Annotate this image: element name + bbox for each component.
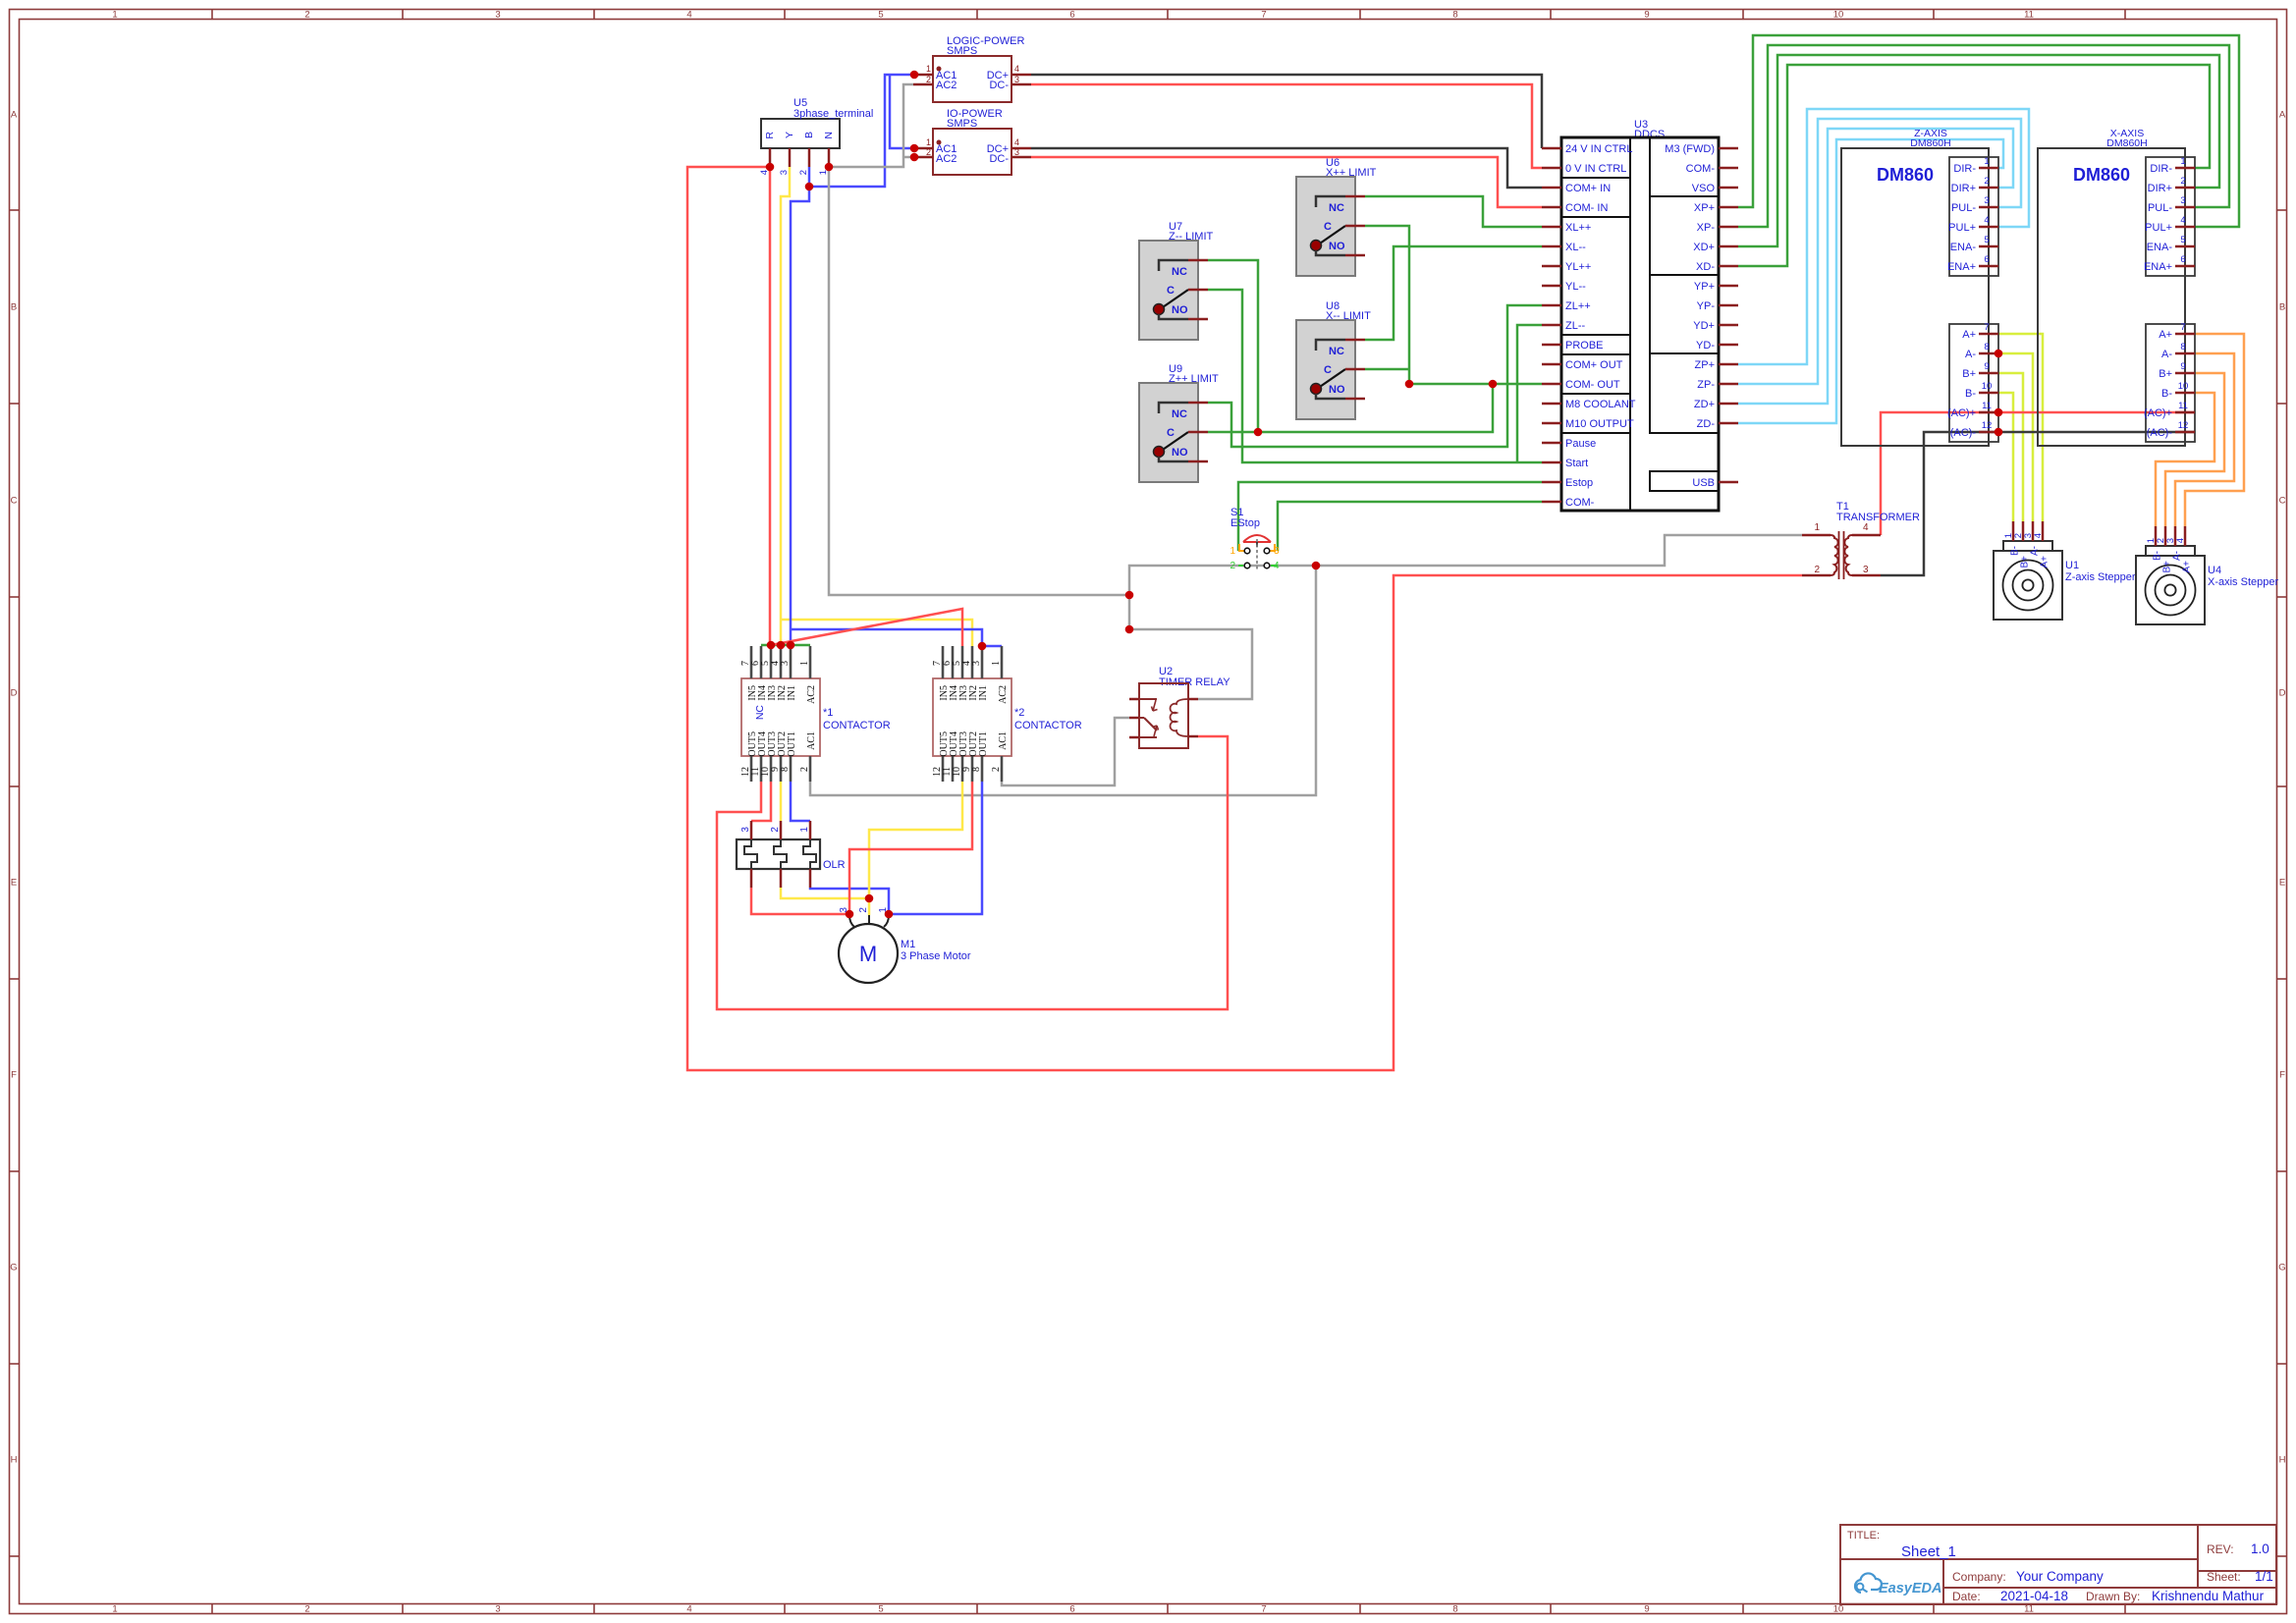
wire Z driver B+ to U1 stepper pin 2 (yellow-green) — [1998, 373, 2023, 521]
wire contactor 1 green bridge IN4 to AC2 — [761, 644, 810, 647]
svg-text:1: 1 — [112, 10, 117, 21]
title block — [1840, 1525, 2276, 1604]
wire Z driver B- to U1 stepper pin 1 (yellow-green) — [1998, 393, 2013, 521]
svg-text:8: 8 — [1452, 10, 1457, 21]
svg-text:2: 2 — [799, 767, 810, 772]
svg-text:8: 8 — [780, 767, 791, 772]
wire phase Y branch to contactor 2 IN2 (yellow) — [781, 620, 972, 646]
wire phase B branch to contactor 2 IN1 (blue) — [791, 629, 982, 646]
svg-text:E: E — [2279, 878, 2285, 889]
svg-text:2: 2 — [304, 1604, 309, 1615]
svg-text:2: 2 — [926, 75, 931, 84]
svg-text:3: 3 — [2180, 195, 2185, 206]
svg-text:(AC)+: (AC)+ — [2144, 407, 2172, 419]
svg-text:3: 3 — [740, 827, 751, 833]
wire U8 NC to DDCS XL-- (green) — [1365, 246, 1542, 340]
svg-text:Date:: Date: — [1952, 1590, 1981, 1603]
wire transformer pin 3 to driver (AC)- pins (black) — [1881, 432, 2195, 575]
wire COM- OUT horizontal (green) — [1409, 383, 1542, 386]
svg-text:7: 7 — [1984, 322, 1989, 333]
svg-text:ZD+: ZD+ — [1694, 399, 1715, 410]
svg-text:ZD-: ZD- — [1697, 418, 1716, 430]
wire DDCS ZD- to Z-axis driver DIR- (light blue loop) — [1738, 139, 2003, 423]
svg-text:1: 1 — [1984, 156, 1989, 167]
timer relay U2 — [1129, 666, 1230, 748]
svg-text:B: B — [803, 132, 815, 138]
wire Z driver A- to U1 stepper pin 3 (yellow-green) — [1998, 353, 2033, 521]
frame row letters left — [10, 110, 18, 1466]
svg-text:PUL-: PUL- — [2148, 202, 2172, 214]
svg-text:C: C — [11, 496, 18, 507]
svg-text:2: 2 — [1984, 176, 1989, 187]
svg-text:COM-: COM- — [1686, 163, 1716, 175]
svg-text:B: B — [11, 302, 17, 313]
svg-text:E: E — [11, 878, 17, 889]
svg-text:3: 3 — [780, 661, 791, 666]
svg-text:8: 8 — [2180, 342, 2185, 352]
svg-text:Company:: Company: — [1952, 1570, 2006, 1584]
svg-text:24 V IN CTRL: 24 V IN CTRL — [1565, 143, 1632, 155]
svg-text:3: 3 — [1014, 75, 1019, 84]
wire 0V: LOGIC SMPS DC- to DDCS 0 V IN CTRL (red) — [1031, 84, 1542, 168]
svg-text:G: G — [10, 1263, 17, 1273]
svg-text:ZP+: ZP+ — [1695, 359, 1715, 371]
svg-text:DIR+: DIR+ — [2148, 183, 2172, 194]
svg-text:7: 7 — [1261, 10, 1266, 21]
svg-text:IN1: IN1 — [787, 685, 797, 701]
svg-text:1/1: 1/1 — [2255, 1569, 2273, 1584]
svg-text:11: 11 — [2024, 1604, 2034, 1615]
svg-text:9: 9 — [2180, 361, 2185, 372]
wire X driver A- to U4 stepper pin 3 (orange) — [2175, 353, 2234, 526]
svg-text:1: 1 — [2180, 156, 2185, 167]
svg-text:2: 2 — [304, 10, 309, 21]
wire U7 C to ZL-- riser and Start (green) — [1208, 290, 1542, 462]
svg-text:M1: M1 — [901, 939, 915, 950]
frame column ticks bottom — [212, 1604, 2125, 1614]
svg-text:ENA-: ENA- — [1950, 242, 1977, 253]
svg-text:B-: B- — [2153, 551, 2163, 561]
svg-text:C: C — [1324, 364, 1332, 376]
svg-text:ENA+: ENA+ — [2144, 261, 2172, 273]
svg-text:CONTACTOR: CONTACTOR — [1014, 720, 1082, 731]
svg-text:B+: B+ — [2162, 561, 2173, 573]
svg-text:DIR-: DIR- — [2150, 163, 2172, 175]
svg-text:9: 9 — [1644, 10, 1649, 21]
svg-text:ZL--: ZL-- — [1565, 320, 1586, 332]
limit switch U7 Z-- LIMIT — [1139, 221, 1213, 340]
svg-text:ZL++: ZL++ — [1565, 300, 1591, 312]
frame row ticks right — [2277, 210, 2287, 1556]
motor M1 3 Phase Motor — [839, 907, 971, 983]
driver X motor pins A/B/(AC) — [2144, 322, 2195, 439]
svg-text:9: 9 — [1644, 1604, 1649, 1615]
svg-text:B-: B- — [2161, 388, 2172, 400]
svg-text:4: 4 — [1984, 215, 1989, 226]
svg-text:AC2: AC2 — [936, 153, 957, 165]
svg-text:XP+: XP+ — [1694, 202, 1715, 214]
svg-text:ZP-: ZP- — [1697, 379, 1715, 391]
svg-text:U1: U1 — [2065, 560, 2079, 571]
svg-text:M10 OUTPUT: M10 OUTPUT — [1565, 418, 1634, 430]
wire contactor 2 OUT1 to motor terminal 1 (blue) — [889, 782, 982, 914]
wire neutral N down and right to S1 riser (gray) — [829, 167, 1129, 595]
svg-text:A-: A- — [2172, 551, 2183, 561]
svg-text:NC: NC — [1329, 202, 1344, 214]
svg-text:AC2: AC2 — [998, 685, 1009, 704]
svg-text:D: D — [11, 688, 18, 699]
svg-text:YL--: YL-- — [1565, 281, 1586, 293]
svg-text:AC1: AC1 — [998, 731, 1009, 750]
svg-text:B+: B+ — [2159, 368, 2172, 380]
stepper driver Z-AXIS DM860H — [1841, 128, 1998, 446]
svg-text:Start: Start — [1565, 458, 1588, 469]
overload relay OLR — [737, 821, 846, 888]
svg-text:H: H — [11, 1455, 18, 1466]
stepper driver X-AXIS DM860H — [2038, 128, 2195, 446]
wire DDCS ZP+ to Z-axis driver PUL+ (light blue loop) — [1738, 109, 2029, 364]
svg-text:Krishnendu Mathur: Krishnendu Mathur — [2152, 1589, 2265, 1603]
svg-text:2: 2 — [1814, 565, 1820, 575]
stepper motor U4 X-axis Stepper — [2136, 526, 2278, 624]
svg-text:H: H — [2279, 1455, 2286, 1466]
controller U3 DDCS left pins — [1542, 143, 1636, 509]
wire contactor 1 OUT3 to OLR pin 3 (red) — [751, 782, 771, 821]
svg-text:(AC)+: (AC)+ — [1947, 407, 1976, 419]
svg-text:DM860: DM860 — [1877, 165, 1934, 185]
svg-text:4: 4 — [2175, 538, 2186, 543]
svg-text:TITLE:: TITLE: — [1847, 1530, 1880, 1542]
svg-text:EStop: EStop — [1230, 517, 1260, 529]
terminal U5 pin stubs and numbers — [759, 148, 829, 175]
driver Z motor pins A/B/(AC) — [1947, 322, 1998, 439]
svg-text:4: 4 — [1863, 522, 1869, 533]
limit switch U8 X-- LIMIT — [1296, 300, 1371, 419]
svg-text:M3 (FWD): M3 (FWD) — [1665, 143, 1715, 155]
svg-text:USB: USB — [1692, 477, 1715, 489]
svg-text:PUL+: PUL+ — [1948, 222, 1976, 234]
driver Z control pins DIR/PUL/ENA — [1947, 156, 1998, 273]
svg-text:3: 3 — [1014, 147, 1019, 157]
svg-text:7: 7 — [2180, 322, 2185, 333]
wire U6 C down to COM- OUT node (green) — [1365, 226, 1409, 384]
wire DDCS ZP- to Z-axis driver PUL- (light blue loop) — [1738, 119, 2021, 384]
wire contactor 2 IN1 to AC2 (blue) — [982, 645, 1002, 648]
svg-text:12: 12 — [2178, 420, 2189, 431]
svg-text:ENA+: ENA+ — [1947, 261, 1976, 273]
svg-text:AC2: AC2 — [806, 685, 817, 704]
wire contactor 2 AC1 to relay common (gray) — [1002, 718, 1129, 785]
wire OLR pin 3 to motor terminal 3 (red) — [751, 888, 849, 914]
controller U3 DDCS body — [1561, 119, 1719, 511]
svg-text:R: R — [764, 132, 776, 139]
svg-text:4: 4 — [1014, 137, 1019, 147]
svg-text:YP-: YP- — [1697, 300, 1716, 312]
svg-text:YD+: YD+ — [1693, 320, 1715, 332]
svg-text:DC-: DC- — [989, 153, 1009, 165]
svg-text:OUT1: OUT1 — [978, 731, 989, 757]
wire DDCS ZD+ to Z-axis driver DIR+ (light blue loop) — [1738, 129, 2013, 404]
wire phase R: U5 pin4 to left loop, bottom run and transformer pin 2 (red) — [687, 167, 1802, 1070]
svg-text:REV:: REV: — [2207, 1542, 2234, 1556]
wire U7 NC down to U9 C run (green) — [1208, 260, 1258, 432]
svg-text:NO: NO — [1329, 241, 1345, 252]
wire COM-: IO SMPS DC- to DDCS COM- IN (red) — [1031, 157, 1542, 207]
svg-text:C: C — [1167, 285, 1175, 297]
svg-text:C: C — [1324, 221, 1332, 233]
frame column numbers bottom — [112, 1604, 2034, 1615]
svg-text:COM- OUT: COM- OUT — [1565, 379, 1620, 391]
svg-text:3 Phase Motor: 3 Phase Motor — [901, 950, 971, 962]
svg-text:(AC)-: (AC)- — [2147, 427, 2173, 439]
wire contactor 1 OUT2 to OLR pin 2 (yellow) — [780, 782, 783, 821]
svg-text:XD+: XD+ — [1693, 242, 1715, 253]
svg-text:1: 1 — [926, 137, 931, 147]
svg-text:X-axis Stepper: X-axis Stepper — [2208, 576, 2278, 588]
terminal U5 3phase_terminal body — [761, 97, 873, 148]
svg-text:5: 5 — [2180, 235, 2185, 245]
svg-text:F: F — [11, 1070, 17, 1081]
frame row ticks left — [10, 210, 20, 1556]
wire ZL-- riser (green) — [1517, 325, 1542, 462]
svg-text:4: 4 — [686, 10, 691, 21]
svg-text:2021-04-18: 2021-04-18 — [2000, 1589, 2068, 1603]
wire X driver B+ to U4 stepper pin 2 (orange) — [2165, 373, 2224, 526]
svg-text:YP+: YP+ — [1694, 281, 1715, 293]
svg-text:DIR-: DIR- — [1953, 163, 1976, 175]
svg-text:YD-: YD- — [1696, 340, 1715, 352]
svg-text:ENA-: ENA- — [2147, 242, 2173, 253]
wire phase B: U5 pin2 to junction (blue) — [808, 167, 811, 187]
wire contactor 2 OUT3 to motor terminal 2 (yellow) — [869, 782, 962, 915]
wire S1 pin4 to transformer pin 1 (gray) — [1316, 535, 1802, 566]
svg-text:C: C — [2279, 496, 2286, 507]
svg-text:COM+ OUT: COM+ OUT — [1565, 359, 1623, 371]
svg-text:DC-: DC- — [989, 80, 1009, 91]
svg-text:A+: A+ — [1962, 329, 1976, 341]
svg-text:VSO: VSO — [1692, 183, 1716, 194]
svg-text:A-: A- — [2030, 546, 2041, 556]
svg-text:TRANSFORMER: TRANSFORMER — [1836, 512, 1920, 523]
svg-text:A+: A+ — [2182, 561, 2193, 573]
svg-text:C: C — [1167, 427, 1175, 439]
svg-text:Your Company: Your Company — [2016, 1569, 2104, 1584]
wire COM+: IO SMPS DC+ to DDCS COM+ IN (black) — [1031, 148, 1542, 188]
svg-text:CONTACTOR: CONTACTOR — [823, 720, 891, 731]
svg-text:G: G — [2278, 1263, 2285, 1273]
svg-text:D: D — [2279, 688, 2286, 699]
wire transformer pin 4 to driver (AC)+ pins (red) — [1881, 412, 2195, 535]
frame column ticks top — [212, 10, 2125, 20]
svg-text:AC1: AC1 — [806, 731, 817, 750]
limit switch U9 Z++ LIMIT — [1139, 363, 1219, 482]
svg-text:XL++: XL++ — [1565, 222, 1591, 234]
svg-text:2: 2 — [2180, 176, 2185, 187]
wire X driver A+ to U4 stepper pin 4 (orange) — [2185, 334, 2244, 526]
svg-text:XD-: XD- — [1696, 261, 1715, 273]
svg-text:Y: Y — [784, 132, 795, 138]
svg-text:1: 1 — [112, 1604, 117, 1615]
svg-text:3: 3 — [1984, 195, 1989, 206]
svg-text:4: 4 — [1014, 64, 1019, 74]
svg-text:8: 8 — [1452, 1604, 1457, 1615]
svg-text:B-: B- — [2010, 546, 2021, 556]
wire U8 C tee into COM- OUT riser (green) — [1365, 368, 1409, 371]
svg-text:3: 3 — [495, 10, 500, 21]
svg-text:M: M — [859, 942, 877, 966]
svg-text:10: 10 — [1982, 381, 1993, 392]
svg-text:3: 3 — [495, 1604, 500, 1615]
wire 24V: LOGIC SMPS DC+ to DDCS 24 V IN CTRL (black) — [1031, 75, 1542, 148]
svg-text:B: B — [2279, 302, 2285, 313]
svg-text:3phase_terminal: 3phase_terminal — [793, 108, 873, 120]
svg-text:NC: NC — [754, 705, 766, 721]
svg-text:NO: NO — [1329, 384, 1345, 396]
svg-text:*2: *2 — [1014, 707, 1024, 719]
power supply IO-POWER SMPS — [913, 108, 1031, 175]
wire DDCS Estop to S1 pin 1 (green) — [1238, 482, 1542, 551]
svg-text:12: 12 — [1982, 420, 1993, 431]
svg-text:0 V IN CTRL: 0 V IN CTRL — [1565, 163, 1626, 175]
svg-text:4: 4 — [686, 1604, 691, 1615]
svg-text:2: 2 — [858, 907, 869, 913]
wire X driver B- to U4 stepper pin 1 (orange) — [2156, 393, 2214, 526]
wire U9 NC to DDCS ZL++ (green) — [1208, 305, 1542, 447]
svg-text:DIR+: DIR+ — [1951, 183, 1976, 194]
wire phase B to IO SMPS AC1 (blue) — [890, 75, 913, 148]
svg-text:3: 3 — [971, 661, 982, 666]
svg-text:4: 4 — [2180, 215, 2185, 226]
wire phase Y: U5 pin3 down with jog (yellow) — [781, 167, 790, 645]
svg-text:4: 4 — [1274, 561, 1280, 571]
svg-text:1: 1 — [926, 64, 931, 74]
svg-text:8: 8 — [1984, 342, 1989, 352]
svg-text:A+: A+ — [2159, 329, 2172, 341]
wire DDCS XP+ to X-axis driver PUL+ (green loop) — [1738, 35, 2239, 227]
limit switch U6 X++ LIMIT — [1296, 157, 1377, 276]
wire U6 NC to DDCS XL++ (green) — [1365, 196, 1542, 227]
svg-text:F: F — [2279, 1070, 2285, 1081]
svg-text:Estop: Estop — [1565, 477, 1593, 489]
wire OLR pin 2 to motor terminal 2 (yellow) — [781, 888, 869, 898]
wire neutral riser through S1 contact row (gray) — [1129, 566, 1316, 629]
wire neutral N: U5 pin1 to SMPS AC2 pins (gray) — [829, 84, 913, 167]
svg-text:(AC)-: (AC)- — [1950, 427, 1977, 439]
svg-text:3: 3 — [1863, 565, 1869, 575]
wire contactor 1 OUT1 to OLR pin 1 (blue) — [791, 782, 810, 821]
svg-text:1: 1 — [799, 827, 810, 833]
transformer T1 — [1802, 501, 1920, 579]
svg-text:Z-axis Stepper: Z-axis Stepper — [2065, 571, 2136, 583]
svg-text:A: A — [11, 110, 18, 121]
svg-text:A-: A- — [2161, 349, 2172, 360]
svg-text:1: 1 — [1230, 546, 1235, 557]
wire S1 net down to contactor 1 AC1 (gray) — [810, 566, 1316, 795]
svg-text:7: 7 — [1261, 1604, 1266, 1615]
svg-text:11: 11 — [2024, 10, 2034, 21]
svg-text:XL--: XL-- — [1565, 242, 1586, 253]
svg-text:Sheet:: Sheet: — [2207, 1570, 2241, 1584]
svg-text:5: 5 — [878, 1604, 883, 1615]
svg-text:IN1: IN1 — [978, 685, 989, 701]
svg-text:YL++: YL++ — [1565, 261, 1591, 273]
svg-text:10: 10 — [1833, 10, 1844, 21]
svg-text:1: 1 — [799, 661, 810, 666]
svg-text:1: 1 — [991, 661, 1002, 666]
svg-text:PUL-: PUL- — [1951, 202, 1976, 214]
svg-text:5: 5 — [1984, 235, 1989, 245]
svg-text:5: 5 — [878, 10, 883, 21]
svg-text:NC: NC — [1329, 346, 1344, 357]
controller U3 DDCS right pins — [1665, 143, 1738, 489]
svg-text:3: 3 — [1274, 546, 1280, 557]
svg-text:AC2: AC2 — [936, 80, 957, 91]
wire phase R drop to contactor 1 IN3 (red) — [769, 167, 772, 645]
svg-text:B+: B+ — [1962, 368, 1976, 380]
svg-text:A+: A+ — [2040, 556, 2050, 568]
svg-text:3: 3 — [779, 170, 790, 175]
svg-text:B-: B- — [1965, 388, 1976, 400]
svg-text:A: A — [2279, 110, 2286, 121]
svg-text:EasyEDA: EasyEDA — [1879, 1581, 1941, 1596]
svg-text:11: 11 — [2178, 401, 2188, 411]
svg-text:N: N — [823, 132, 835, 139]
svg-text:6: 6 — [2180, 254, 2185, 265]
svg-text:*1: *1 — [823, 707, 833, 719]
svg-text:2: 2 — [770, 827, 781, 833]
wire crossover: contactor 1 IN3 to contactor 2 IN3 (red diagonal) — [771, 609, 962, 646]
svg-text:COM- IN: COM- IN — [1565, 202, 1608, 214]
svg-text:NO: NO — [1172, 304, 1188, 316]
svg-text:COM+ IN: COM+ IN — [1565, 183, 1611, 194]
frame column numbers top — [112, 10, 2034, 21]
svg-text:10: 10 — [2178, 381, 2189, 392]
contactor *1 — [740, 646, 891, 782]
svg-text:Drawn By:: Drawn By: — [2086, 1590, 2140, 1603]
svg-text:NC: NC — [1172, 408, 1187, 420]
wire neutral N branch to IO SMPS AC2 (gray) — [903, 156, 913, 159]
wire phase B down with jog to contactor 1 IN1 (blue) — [791, 187, 809, 645]
svg-text:OUT1: OUT1 — [787, 731, 797, 757]
wire OLR pin 1 to motor terminal 1 (blue) — [810, 888, 889, 914]
emergency stop S1 EStop — [1230, 507, 1280, 571]
contactor *2 — [932, 646, 1082, 782]
power supply LOGIC-POWER SMPS — [913, 35, 1031, 102]
svg-text:SMPS: SMPS — [947, 45, 977, 57]
wire neutral branch to relay coil top (gray) — [1129, 629, 1252, 699]
wire U9 C long run to COM- OUT (green) — [1208, 384, 1493, 432]
wire Z driver A+ to U1 stepper pin 4 (yellow-green) — [1998, 334, 2043, 521]
svg-text:2: 2 — [926, 147, 931, 157]
wire DDCS XD- to X-axis driver DIR- (green loop) — [1738, 65, 2210, 266]
stepper motor U1 Z-axis Stepper — [1994, 521, 2136, 620]
svg-text:6: 6 — [1984, 254, 1989, 265]
svg-text:PROBE: PROBE — [1565, 340, 1604, 352]
svg-text:NC: NC — [1172, 266, 1187, 278]
wire DDCS XP- to X-axis driver PUL- (green loop) — [1738, 45, 2229, 227]
svg-text:2: 2 — [991, 767, 1002, 772]
svg-text:OLR: OLR — [823, 859, 846, 871]
svg-text:8: 8 — [971, 767, 982, 772]
svg-text:9: 9 — [1984, 361, 1989, 372]
wire phase B to LOGIC SMPS AC1 (blue) — [809, 75, 913, 187]
svg-text:1.0: 1.0 — [2251, 1542, 2269, 1556]
driver X control pins DIR/PUL/ENA — [2144, 156, 2195, 273]
svg-text:NO: NO — [1172, 447, 1188, 459]
svg-text:6: 6 — [1069, 10, 1074, 21]
svg-text:DM860: DM860 — [2073, 165, 2130, 185]
svg-text:Pause: Pause — [1565, 438, 1596, 450]
